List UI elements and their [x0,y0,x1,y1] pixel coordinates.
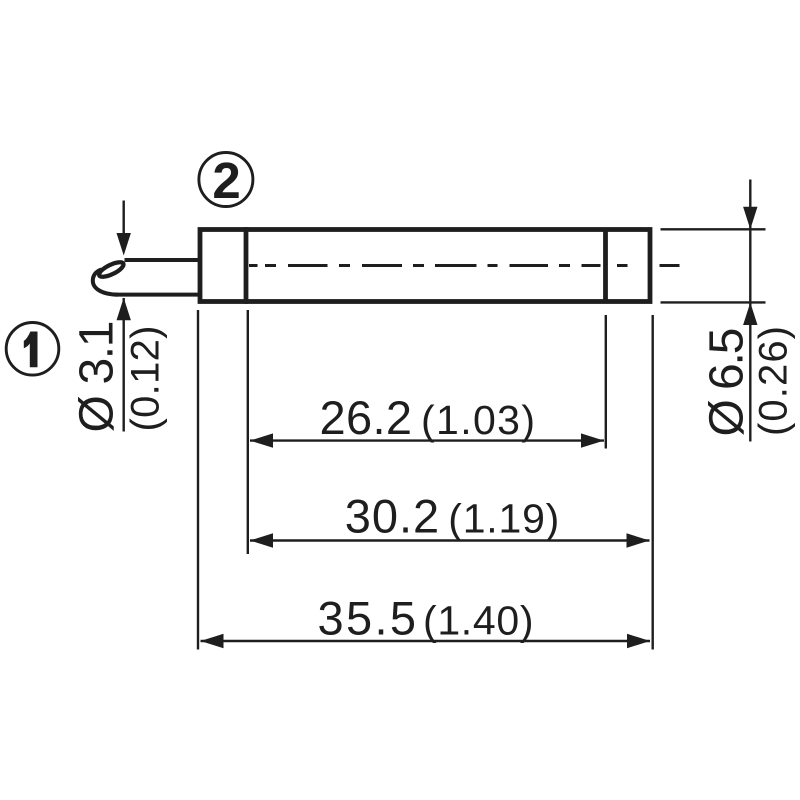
svg-text:(1.03): (1.03) [421,397,535,443]
cable tip loop [97,259,125,279]
arrowhead 30.2 right [627,533,650,547]
svg-text:(0.12): (0.12) [123,326,167,432]
arrowhead tip diameter upper [117,233,131,256]
arrowhead 30.2 left [250,533,273,547]
centerline (dash-dot axis) [249,264,680,267]
arrowhead body diameter lower [743,303,757,326]
svg-text:(1.40): (1.40) [423,598,534,644]
arrowhead 35.5 left [201,634,224,648]
cable tube rounded end cap [93,270,118,295]
extension line right cap divider [605,315,607,449]
dimension line tip diameter lower / fraction bar [122,298,124,432]
marker 1 circle [6,323,59,376]
extension line body top right [661,228,766,230]
svg-text:(1.19): (1.19) [448,496,559,542]
extension line left cap [247,310,249,554]
left cap divider line [244,227,249,304]
cable tube top edge [125,258,199,262]
arrowhead 26.2 left [250,433,273,447]
right cap divider line [603,230,608,302]
svg-text:Ø 6.5: Ø 6.5 [701,328,754,437]
dimension line body diameter / fraction bar [749,180,751,442]
extension line body right edge [652,315,654,650]
marker 2 circle [199,153,253,207]
arrowhead tip diameter lower [117,298,131,321]
arrowhead 35.5 right [627,634,650,648]
marker 1 digit [24,332,38,368]
arrowhead 26.2 right [581,433,604,447]
cable tube bottom edge [114,293,198,297]
svg-text:(0.26): (0.26) [752,326,796,436]
arrowhead body diameter upper [743,207,757,230]
svg-text:26.2: 26.2 [320,391,413,444]
svg-text:35.5: 35.5 [318,592,417,645]
dimension line 30.2 [250,539,650,541]
dimension line 26.2 [250,439,604,441]
probe body outline [200,230,650,302]
dimension line 35.5 [201,640,651,642]
svg-text:30.2: 30.2 [345,490,440,543]
extension line body left edge [197,310,199,650]
svg-text:Ø 3.1: Ø 3.1 [70,321,123,433]
extension line body bottom right [661,301,766,303]
svg-text:2: 2 [212,152,240,209]
dimension line tip diameter upper [122,201,124,235]
